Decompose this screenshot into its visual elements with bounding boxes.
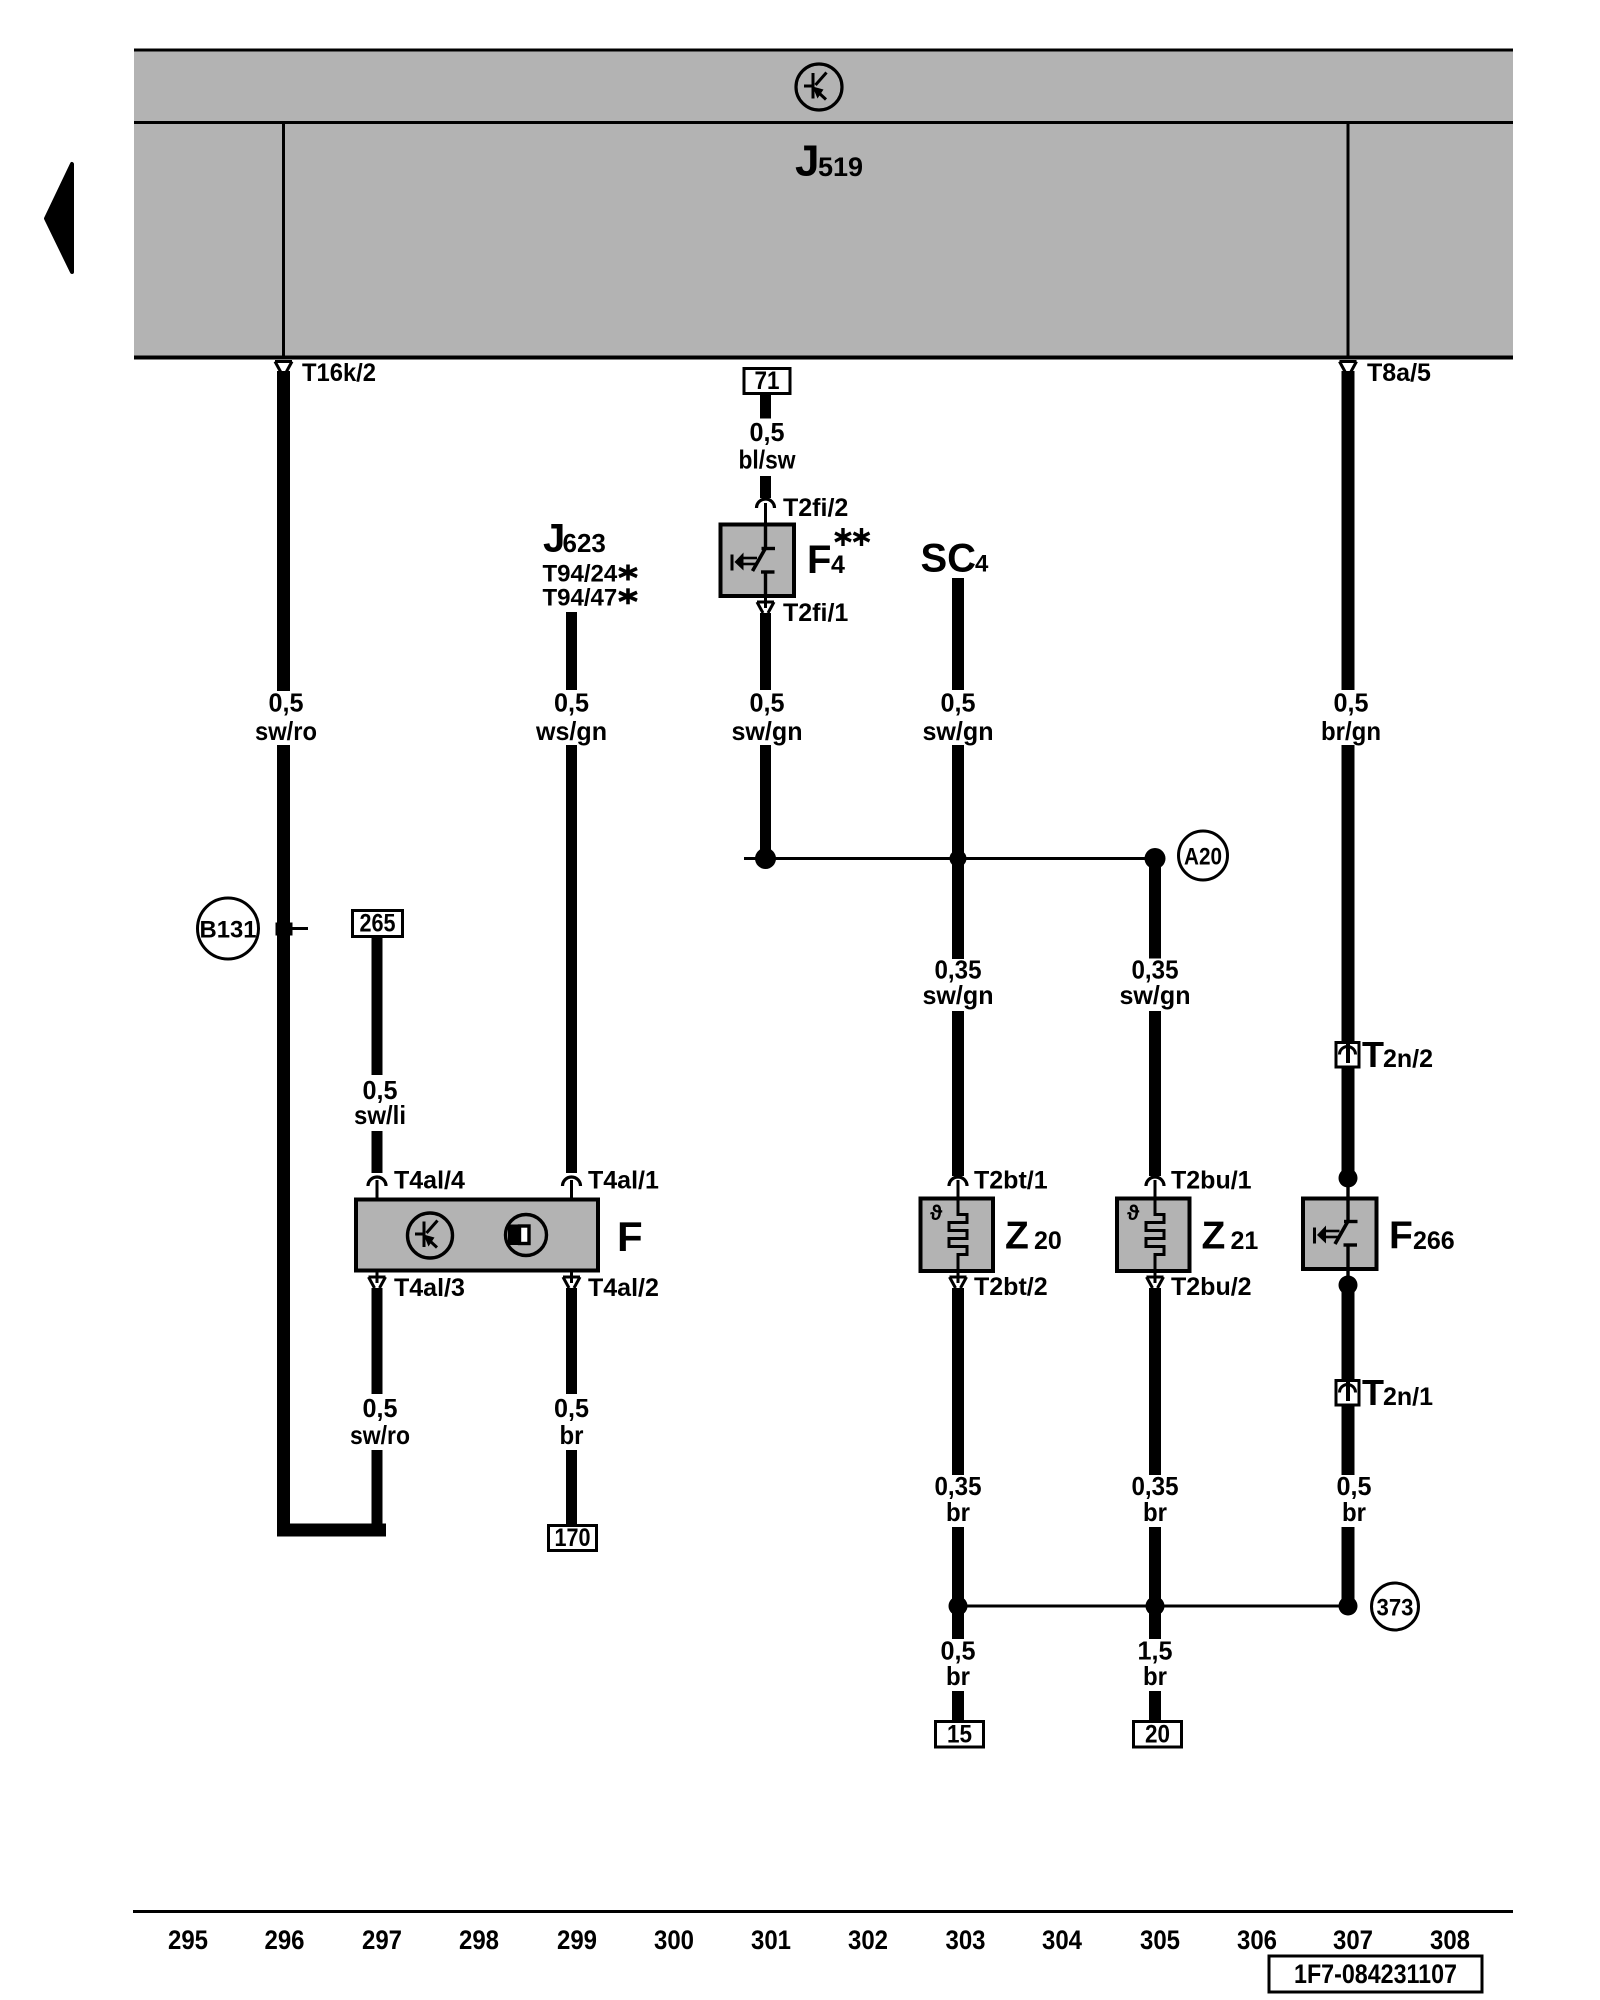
svg-text:373: 373 — [1377, 1595, 1414, 1622]
asterisk 2 of F4 — [854, 528, 870, 546]
svg-text:ϑ: ϑ — [930, 1202, 943, 1225]
label 0,35 sw/gn (column E) — [923, 955, 994, 1011]
wire above 15 — [952, 1691, 964, 1722]
wire ws/gn lower — [566, 745, 577, 1173]
junction dot D — [755, 848, 776, 869]
wire below T2n/1 — [1342, 1405, 1355, 1475]
svg-text:297: 297 — [362, 1925, 402, 1955]
wire column E mid — [952, 745, 964, 959]
svg-text:br: br — [946, 1661, 970, 1691]
svg-text:21: 21 — [1231, 1227, 1259, 1255]
svg-text:T4al/3: T4al/3 — [394, 1274, 465, 1302]
label Z20 — [1005, 1215, 1062, 1258]
label 0,5 br/gn — [1321, 688, 1381, 747]
asterisk 1 of F4 — [835, 528, 851, 546]
svg-text:15: 15 — [947, 1721, 972, 1749]
svg-text:306: 306 — [1237, 1925, 1277, 1955]
label 0,5 sw/gn (column E) — [923, 688, 994, 747]
terminal box 265 — [353, 910, 403, 938]
svg-text:T: T — [1362, 1372, 1384, 1413]
junction bulge E — [950, 850, 967, 867]
pin arrow T2bt/2 — [950, 1271, 967, 1288]
label 0,5 sw/gn (column D) — [732, 688, 803, 747]
connection reference 373 — [1372, 1583, 1419, 1630]
svg-text:F: F — [617, 1213, 643, 1260]
pin arrow T8a/5 — [1340, 362, 1357, 373]
direction arrow (left margin) — [46, 164, 72, 272]
svg-text:303: 303 — [946, 1925, 986, 1955]
svg-text:307: 307 — [1333, 1925, 1373, 1955]
svg-text:br: br — [560, 1420, 584, 1450]
svg-text:ws/gn: ws/gn — [535, 716, 607, 746]
pin arrow T4al/2 — [563, 1271, 580, 1289]
label T2n/1 — [1362, 1372, 1433, 1413]
switch circle in F — [408, 1213, 453, 1258]
junction dot E lower — [949, 1597, 968, 1616]
svg-text:sw/li: sw/li — [354, 1100, 406, 1130]
svg-text:71: 71 — [755, 367, 780, 395]
wire below F266 — [1342, 1285, 1355, 1381]
pin T4al/1 — [570, 1180, 573, 1200]
svg-text:sw/ro: sw/ro — [350, 1420, 410, 1450]
svg-text:br: br — [1342, 1497, 1366, 1527]
inline connector T2n/1 — [1336, 1381, 1359, 1406]
wire below junction F — [1149, 1606, 1161, 1639]
label 0,5 ws/gn — [535, 688, 607, 747]
svg-text:266: 266 — [1413, 1227, 1455, 1255]
svg-text:1F7-084231107: 1F7-084231107 — [1294, 1959, 1457, 1989]
svg-text:0,5: 0,5 — [269, 688, 304, 718]
component F combo box — [356, 1200, 598, 1271]
label 0,5 sw/ro — [255, 688, 317, 747]
wire column A lower — [277, 745, 290, 1537]
svg-text:sw/ro: sw/ro — [255, 716, 317, 746]
wire below T2bu/2 — [1149, 1288, 1161, 1475]
svg-text:T2fi/1: T2fi/1 — [783, 599, 848, 627]
svg-text:T2bt/1: T2bt/1 — [974, 1167, 1048, 1195]
svg-text:0,5: 0,5 — [554, 688, 589, 718]
svg-text:302: 302 — [848, 1925, 888, 1955]
svg-text:20: 20 — [1145, 1721, 1170, 1749]
label 0,5 bl/sw — [739, 417, 797, 475]
pin arrow T2fi/1 — [757, 596, 774, 613]
horizontal junction line A20 — [744, 857, 1155, 860]
junction dot above F266 — [1339, 1169, 1358, 1188]
svg-text:T2bt/2: T2bt/2 — [974, 1273, 1048, 1301]
svg-text:J: J — [795, 137, 819, 186]
svg-text:T2fi/2: T2fi/2 — [783, 494, 848, 522]
wire above T2bt/1 — [952, 1011, 964, 1176]
wire below T2bt/2 — [952, 1288, 964, 1475]
label 1,5 br (column F bottom) — [1138, 1636, 1173, 1692]
component Z20 heated washer jet — [921, 1199, 994, 1272]
elbow wire bottom (A to B) — [277, 1524, 386, 1537]
svg-text:br: br — [1143, 1661, 1167, 1691]
control unit J519 onboard supply — [134, 50, 1513, 358]
pin below F266 — [1346, 1269, 1349, 1281]
switch symbol K in J519 strip — [796, 64, 842, 110]
label 0,5 br (column C) — [554, 1393, 589, 1450]
gauge circle in F — [506, 1215, 547, 1256]
label 0,35 sw/gn (column F) — [1120, 955, 1191, 1011]
label J519 — [795, 137, 863, 186]
wire column G mid — [1342, 745, 1355, 1043]
svg-text:308: 308 — [1430, 1925, 1470, 1955]
wire above 373 junction (column E) — [952, 1527, 964, 1606]
pin into F266 — [1346, 1178, 1349, 1199]
asterisk after T94/24 — [619, 565, 637, 581]
asterisk after T94/47 — [619, 588, 637, 604]
connector arc T2fi/2 — [757, 499, 775, 508]
terminal box 15 — [936, 1721, 984, 1749]
component Z21 heated washer jet — [1117, 1199, 1190, 1272]
pin T2bt/1 — [957, 1180, 960, 1200]
wire above 170 — [566, 1450, 577, 1526]
svg-text:623: 623 — [563, 528, 606, 558]
svg-text:sw/gn: sw/gn — [923, 716, 994, 746]
svg-text:br: br — [1143, 1497, 1167, 1527]
svg-text:br/gn: br/gn — [1321, 716, 1381, 746]
wire above 20 — [1149, 1691, 1161, 1722]
svg-text:sw/gn: sw/gn — [923, 980, 994, 1010]
svg-text:T8a/5: T8a/5 — [1367, 359, 1431, 387]
svg-text:304: 304 — [1042, 1925, 1082, 1955]
svg-text:265: 265 — [360, 910, 396, 938]
svg-text:bl/sw: bl/sw — [739, 445, 797, 475]
svg-text:T4al/2: T4al/2 — [588, 1274, 659, 1302]
svg-text:20: 20 — [1034, 1227, 1062, 1255]
wire stub T8a/5 inside J519 — [1347, 123, 1350, 356]
wire below T2n/2 — [1342, 1067, 1355, 1172]
label J623 with pins — [543, 517, 618, 612]
svg-text:519: 519 — [818, 152, 863, 182]
track numbers 295-308 — [168, 1925, 1470, 1955]
svg-text:300: 300 — [654, 1925, 694, 1955]
svg-text:sw/gn: sw/gn — [732, 716, 803, 746]
pin T4al/4 — [376, 1180, 379, 1200]
wire below T2fi/1 — [760, 613, 771, 690]
svg-text:2n/2: 2n/2 — [1383, 1045, 1433, 1073]
wire stub T16k/2 inside J519 — [282, 123, 285, 356]
svg-text:0,5: 0,5 — [554, 1393, 589, 1423]
terminal box 20 — [1134, 1721, 1182, 1749]
wire above junction (column F) — [1149, 1527, 1161, 1606]
wire above 373 junction (column G) — [1342, 1527, 1355, 1602]
label 0,5 br (column G bottom) — [1337, 1471, 1372, 1527]
svg-text:170: 170 — [555, 1524, 591, 1552]
svg-text:F: F — [807, 538, 831, 582]
junction dot A20 — [1145, 848, 1166, 869]
svg-text:299: 299 — [557, 1925, 597, 1955]
svg-text:295: 295 — [168, 1925, 208, 1955]
component F4 brake fluid switch — [721, 525, 795, 597]
wire br/gn upper (column G) — [1342, 371, 1355, 690]
svg-text:0,5: 0,5 — [363, 1393, 398, 1423]
label 0,5 sw/li — [354, 1075, 406, 1130]
terminal box 170 — [549, 1524, 597, 1552]
svg-text:T16k/2: T16k/2 — [302, 359, 376, 387]
svg-text:T4al/1: T4al/1 — [588, 1167, 659, 1195]
junction dot G — [1339, 1597, 1358, 1616]
label Z21 — [1202, 1215, 1259, 1258]
horizontal junction line 373 — [958, 1605, 1348, 1608]
stub line at B131 — [292, 927, 308, 930]
svg-text:Z: Z — [1202, 1215, 1226, 1258]
label 0,5 br (column E bottom) — [941, 1636, 976, 1692]
label F4** — [807, 538, 845, 582]
wire above elbow (column B) — [372, 1450, 383, 1531]
wire below T4al/2 — [566, 1288, 577, 1394]
svg-text:ϑ: ϑ — [1127, 1202, 1140, 1225]
wire above T4al/4 — [372, 1131, 383, 1173]
svg-text:0,5: 0,5 — [941, 688, 976, 718]
pin T2bu/1 — [1154, 1180, 1157, 1200]
svg-text:4: 4 — [831, 551, 845, 579]
svg-text:T2bu/1: T2bu/1 — [1171, 1167, 1252, 1195]
svg-text:2n/1: 2n/1 — [1383, 1383, 1433, 1411]
wire below A20 junction — [1149, 859, 1161, 959]
svg-text:SC: SC — [921, 537, 977, 581]
terminal box 71 — [744, 367, 790, 395]
svg-text:B131: B131 — [200, 917, 257, 944]
label 0,5 sw/ro (lower B) — [350, 1393, 410, 1450]
wire above junction (column D) — [760, 745, 771, 859]
svg-text:A20: A20 — [1184, 844, 1222, 871]
svg-text:Z: Z — [1005, 1215, 1029, 1258]
wire below junction E — [952, 1606, 964, 1639]
svg-text:305: 305 — [1140, 1925, 1180, 1955]
svg-text:br: br — [946, 1497, 970, 1527]
inline connector T2n/2 — [1336, 1043, 1359, 1068]
pin arrow T16k/2 — [275, 362, 292, 373]
svg-text:0,5: 0,5 — [1334, 688, 1369, 718]
svg-text:0,5: 0,5 — [750, 417, 785, 447]
wire ws/gn upper (column C) — [566, 612, 577, 690]
connection reference A20 — [1179, 831, 1228, 880]
wire below T4al/3 — [372, 1288, 383, 1394]
bottom track line — [133, 1910, 1513, 1913]
svg-text:4: 4 — [975, 551, 989, 578]
svg-text:298: 298 — [459, 1925, 499, 1955]
connector arc T2bu/1 — [1146, 1177, 1164, 1186]
svg-text:296: 296 — [265, 1925, 305, 1955]
pin arrow T2bu/2 — [1147, 1271, 1164, 1288]
connector arc T4al/1 — [563, 1177, 581, 1186]
label 0,35 br (column E) — [935, 1471, 982, 1527]
label T2n/2 — [1362, 1034, 1433, 1075]
pin arrow T4al/3 — [369, 1271, 386, 1289]
svg-text:F: F — [1389, 1215, 1413, 1258]
label 0,35 br (column F) — [1132, 1471, 1179, 1527]
wire below 265 — [372, 937, 383, 1075]
wire below SC4 upper — [952, 578, 964, 690]
svg-text:T: T — [1362, 1034, 1384, 1075]
connection reference B131 — [198, 898, 259, 959]
wire below 71 — [760, 394, 771, 419]
wire above T2bu/1 — [1149, 1011, 1161, 1176]
junction dot F lower — [1146, 1597, 1165, 1616]
label SC4 — [921, 537, 990, 581]
diagram number box — [1269, 1956, 1482, 1992]
wire 0,5 sw/ro (column A upper) — [277, 371, 290, 691]
junction square at B131 — [276, 923, 293, 936]
wire above T2fi/2 — [760, 476, 771, 498]
connector arc T4al/4 — [368, 1177, 386, 1186]
svg-text:sw/gn: sw/gn — [1120, 980, 1191, 1010]
svg-text:301: 301 — [751, 1925, 791, 1955]
component F266 — [1303, 1199, 1377, 1270]
junction dot below F266 — [1339, 1276, 1358, 1295]
svg-text:T4al/4: T4al/4 — [394, 1167, 465, 1195]
pin T2fi/2 — [764, 503, 767, 525]
svg-text:T2bu/2: T2bu/2 — [1171, 1273, 1252, 1301]
svg-text:T94/47: T94/47 — [543, 584, 618, 611]
label F266 — [1389, 1215, 1455, 1258]
connector arc T2bt/1 — [949, 1177, 967, 1186]
svg-text:0,5: 0,5 — [750, 688, 785, 718]
